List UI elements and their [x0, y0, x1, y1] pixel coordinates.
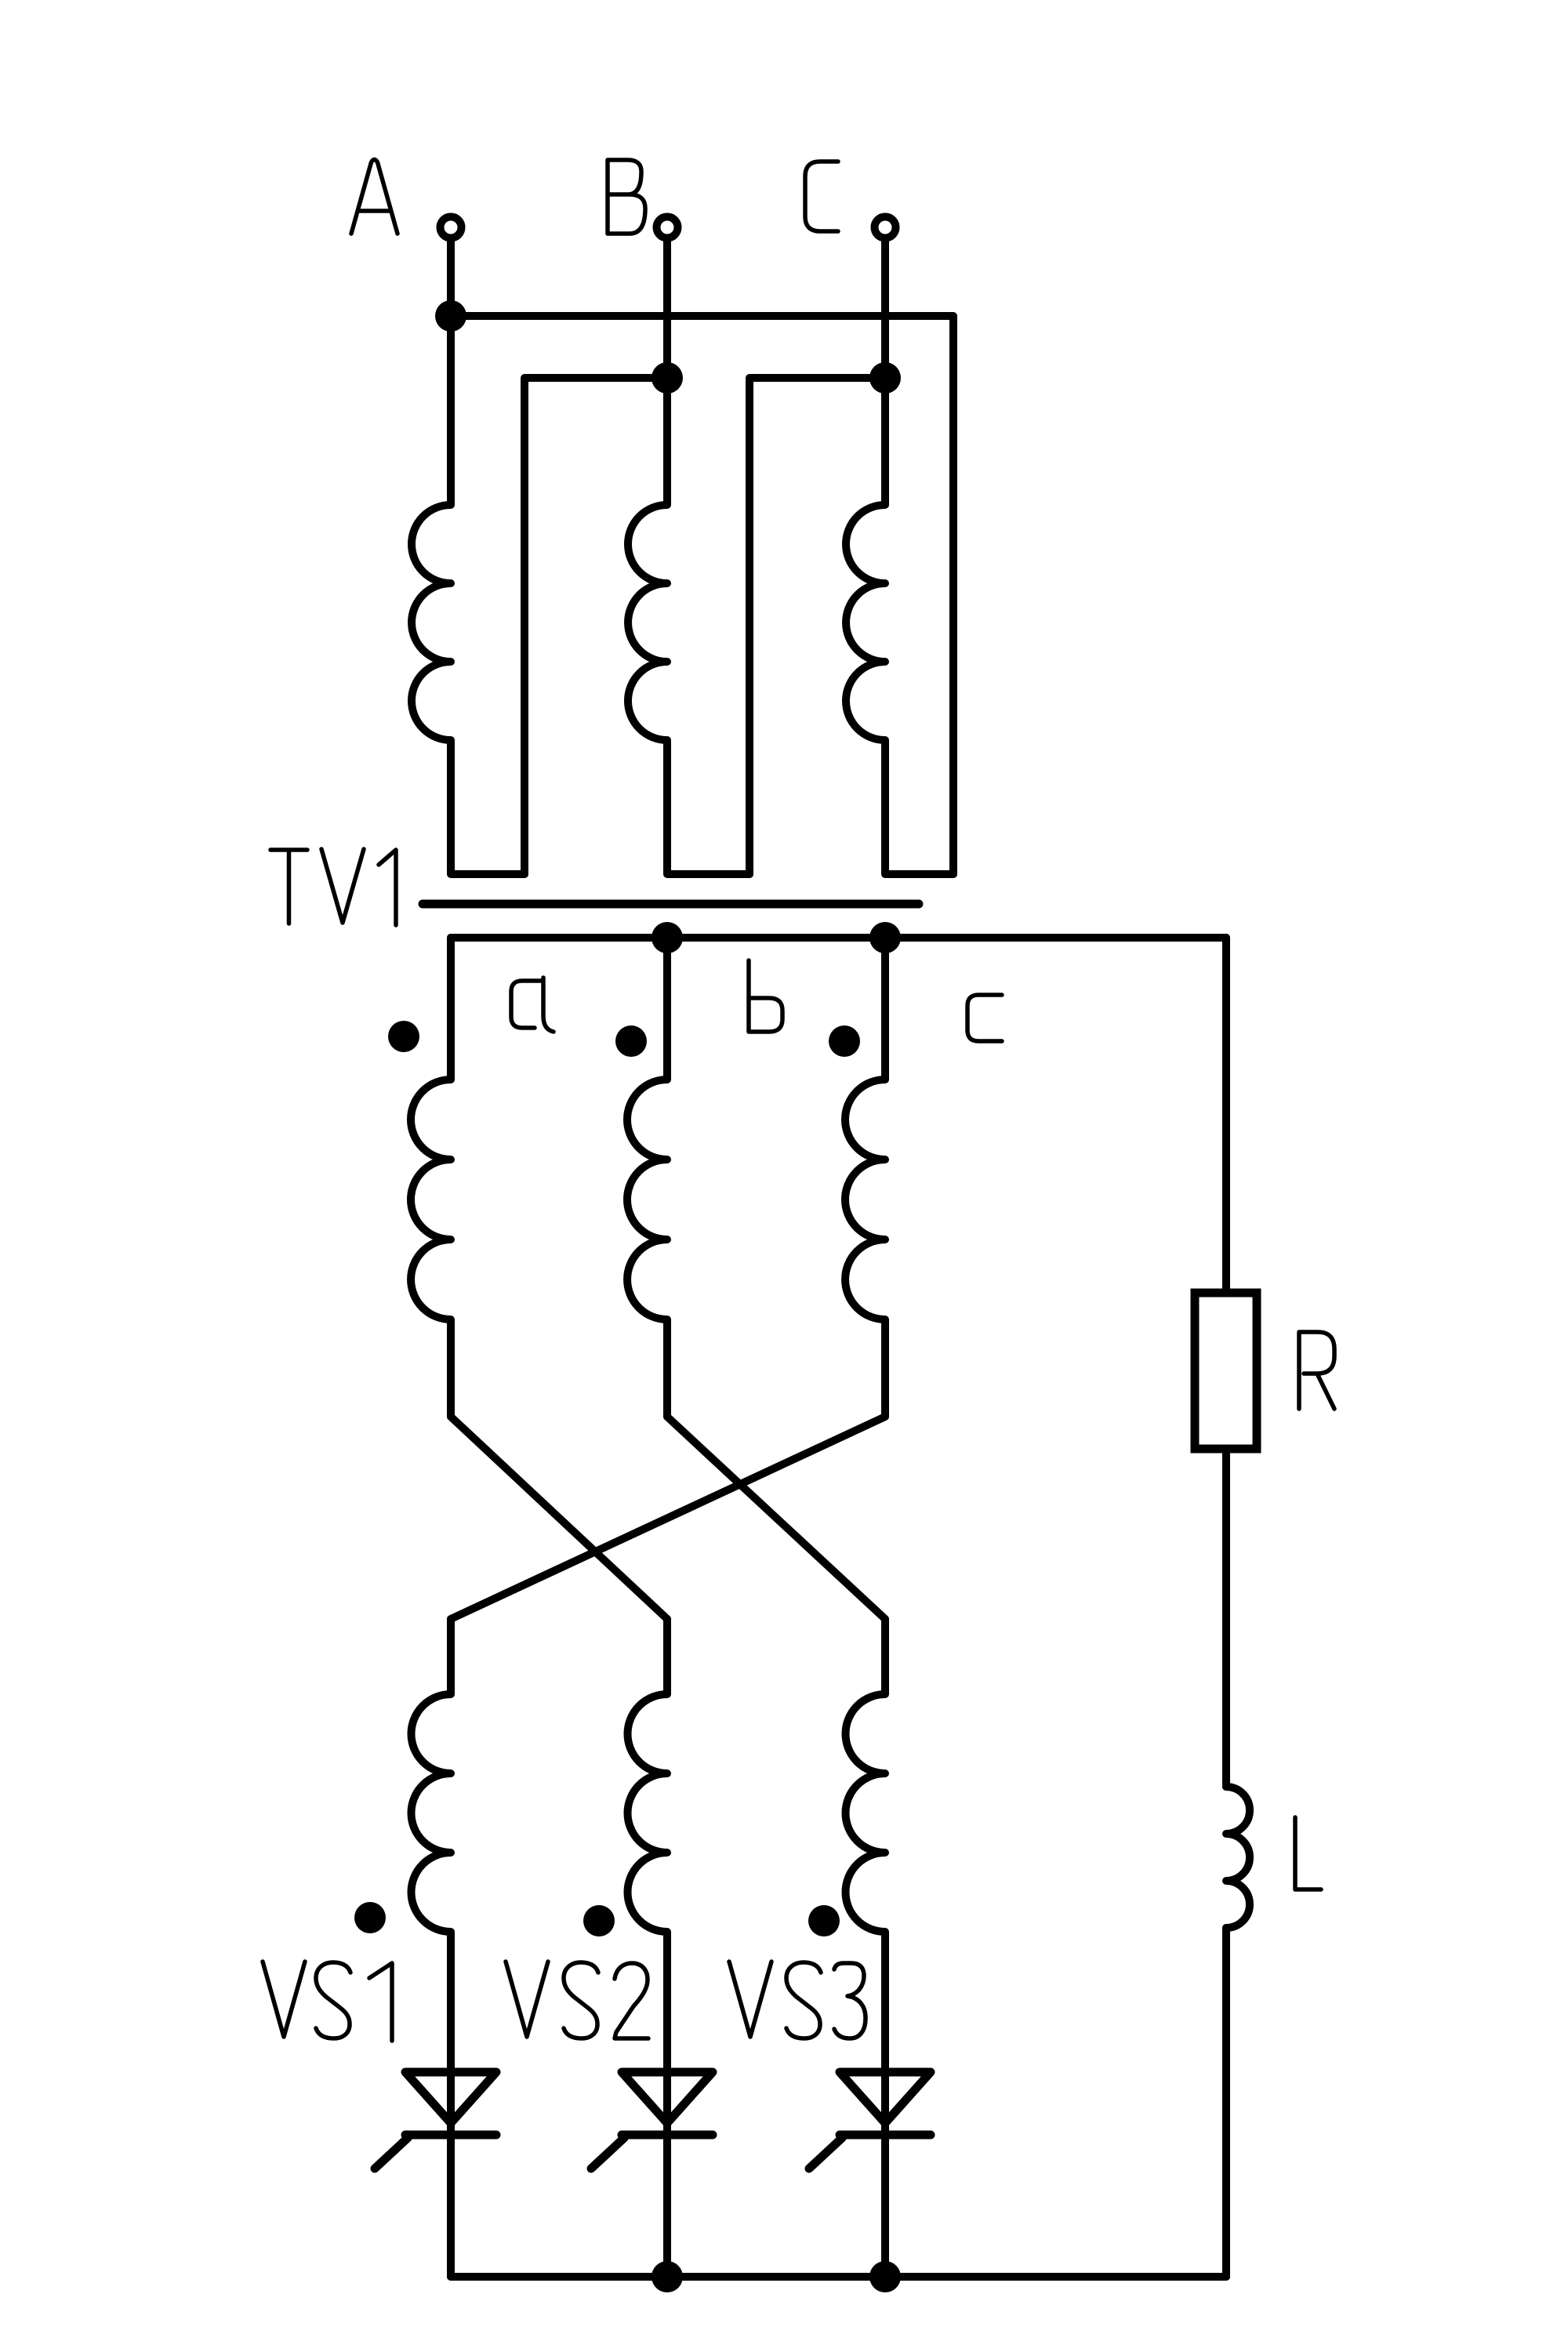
junction bottom node VS2: [652, 2261, 683, 2292]
label VS1: [263, 1962, 392, 2041]
transformer TV1 primary winding 2 (phase B): [628, 378, 750, 874]
polarity dot lower winding at VS3: [808, 1905, 840, 1936]
polarity dot lower winding at VS1: [354, 1902, 386, 1933]
polarity dot winding c: [829, 1025, 860, 1057]
wire secondary bus a-b-c to load: [451, 934, 1226, 942]
wire delta bus A to winding3 return: [451, 316, 953, 874]
junction node B: [652, 362, 683, 394]
wire phase A lead: [447, 238, 455, 316]
label a (secondary phase a): [511, 978, 554, 1032]
polarity dot winding a: [388, 1021, 419, 1052]
junction node A: [435, 300, 466, 332]
secondary winding b (zigzag upper b + lower half): [627, 938, 885, 2072]
transformer TV1 primary winding 3 (phase C): [846, 378, 953, 874]
thyristor VS2: [622, 2072, 713, 2123]
junction node C: [869, 362, 901, 394]
wire R to L: [1222, 1449, 1230, 1787]
inductor L: [1226, 1787, 1250, 1928]
polarity dot lower winding at VS2: [583, 1905, 615, 1936]
terminal C: [875, 217, 896, 238]
transformer TV1 core: [423, 900, 919, 909]
label C (phase C): [805, 162, 838, 231]
wire phase B lead: [663, 238, 671, 378]
terminal A: [441, 217, 462, 238]
label c (secondary phase c): [967, 995, 1002, 1041]
label b (secondary phase b): [749, 960, 782, 1032]
junction bottom node VS3: [869, 2261, 901, 2292]
label R: [1299, 1332, 1334, 1409]
thyristor VS3: [840, 2072, 931, 2123]
wire load branch upper: [1222, 938, 1230, 1293]
terminal B: [657, 217, 678, 238]
wire delta bus winding2 return to C: [750, 378, 885, 874]
junction secondary node c: [869, 922, 901, 953]
label TV1: [270, 849, 396, 925]
thyristor VS1: [405, 2072, 496, 2123]
polarity dot winding b: [615, 1025, 647, 1057]
wire cathode bus to load return: [451, 2273, 1226, 2281]
label VS3: [729, 1962, 866, 2038]
wire load branch lower: [1222, 1928, 1230, 2277]
secondary winding c (zigzag upper c + lower half): [411, 938, 885, 2072]
wire phase C lead: [881, 238, 889, 378]
label L: [1295, 1817, 1321, 1889]
junction secondary node b: [652, 922, 683, 953]
resistor R: [1195, 1293, 1257, 1449]
secondary winding a (zigzag upper a + lower half): [411, 938, 667, 2072]
label B (phase B): [608, 160, 645, 234]
wire delta bus winding1 return to B: [524, 378, 667, 874]
label VS2: [506, 1962, 648, 2038]
label A (phase A): [351, 160, 397, 234]
transformer TV1 primary winding 1 (phase A): [412, 316, 524, 874]
